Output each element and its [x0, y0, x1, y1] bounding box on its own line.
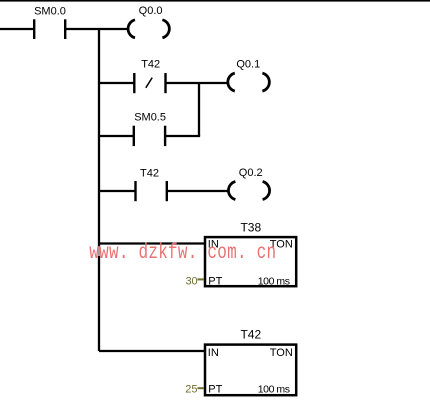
svg-text:Q0.1: Q0.1 [236, 59, 260, 71]
svg-text:T38: T38 [240, 221, 261, 235]
svg-text:T42: T42 [141, 59, 160, 71]
svg-text:TON: TON [270, 347, 293, 359]
svg-text:100 ms: 100 ms [258, 275, 290, 287]
svg-text:T42: T42 [240, 328, 261, 342]
svg-text:100 ms: 100 ms [258, 383, 290, 395]
svg-text:30: 30 [185, 276, 197, 288]
svg-text:SM0.0: SM0.0 [34, 6, 66, 18]
svg-text:IN: IN [208, 347, 219, 359]
svg-text:Q0.0: Q0.0 [139, 5, 163, 17]
svg-text:SM0.5: SM0.5 [134, 112, 166, 124]
svg-text:PT: PT [208, 383, 222, 395]
svg-text:www. dzkfw. com. cn: www. dzkfw. com. cn [89, 240, 276, 265]
svg-text:PT: PT [208, 275, 222, 287]
svg-text:25: 25 [185, 384, 197, 396]
svg-text:Q0.2: Q0.2 [239, 167, 263, 179]
svg-text:T42: T42 [140, 168, 159, 180]
